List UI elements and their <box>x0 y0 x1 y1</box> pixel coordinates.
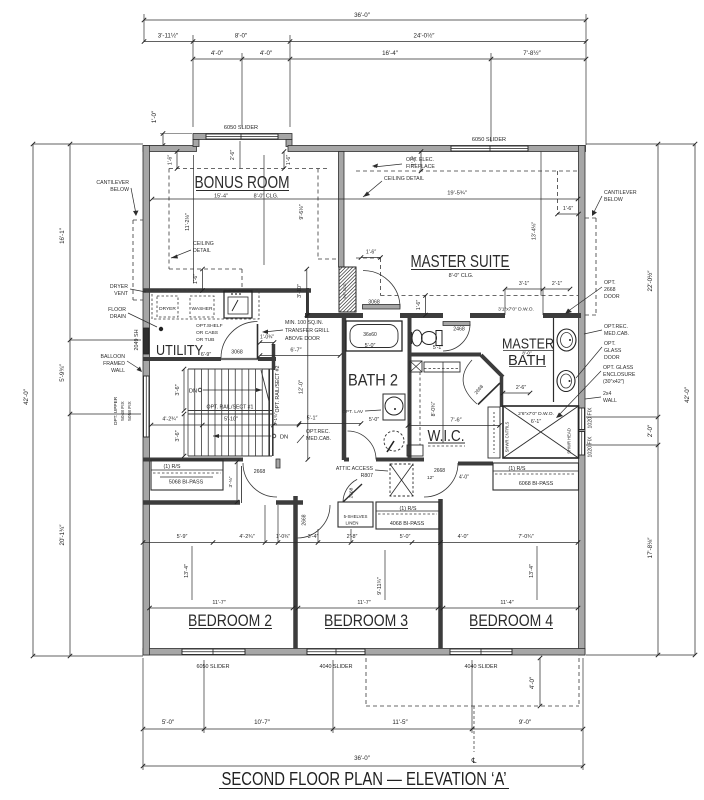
dimension 1'-6 bonus right <box>283 152 285 169</box>
utility cabinets dashed outline <box>152 290 259 319</box>
svg-text:3'1″x7'0″ D.W.O.: 3'1″x7'0″ D.W.O. <box>498 307 534 313</box>
svg-text:TRANSFER GRILL: TRANSFER GRILL <box>285 328 330 334</box>
svg-text:3068: 3068 <box>368 300 380 306</box>
extension lines left <box>33 143 143 145</box>
dimension 1'-6 at wall <box>425 296 427 316</box>
dimension 7'-6 WIC <box>408 425 500 427</box>
dimension 3'-6 upper flight <box>183 369 185 411</box>
svg-text:1'-6″: 1'-6″ <box>563 206 573 212</box>
svg-text:16'-4″: 16'-4″ <box>382 50 399 57</box>
svg-text:9'-11¾″: 9'-11¾″ <box>377 577 383 595</box>
washer dashed box <box>190 296 214 317</box>
svg-text:MED.CAB.: MED.CAB. <box>604 331 629 337</box>
svg-text:BEDROOM 3: BEDROOM 3 <box>324 612 408 630</box>
wall toilet room bottom <box>410 353 482 357</box>
door master suite 3068 <box>363 305 401 310</box>
dimension 1'-6 master top <box>420 152 422 172</box>
window 4040 slider bottom (bedroom 4) <box>450 649 512 655</box>
bathtub bath2 36x60 <box>346 321 402 351</box>
svg-text:3'-⅛″: 3'-⅛″ <box>228 476 234 487</box>
WIC bottom shelf <box>428 442 465 444</box>
svg-text:2'-6″: 2'-6″ <box>516 385 526 391</box>
svg-text:6050 SLIDER: 6050 SLIDER <box>224 125 258 131</box>
svg-text:4'-0″: 4'-0″ <box>458 534 469 540</box>
extension lines right <box>586 143 695 145</box>
svg-text:4040 SLIDER: 4040 SLIDER <box>320 664 353 670</box>
svg-text:ABOVE DOOR: ABOVE DOOR <box>285 336 320 342</box>
dimension bottom row (5'-0 / 10'-7 / 11'-5 / 9'-0) <box>143 728 583 730</box>
ceiling dashed master suite <box>356 170 578 172</box>
svg-text:CANTILEVER: CANTILEVER <box>604 190 637 196</box>
svg-text:5'-9″: 5'-9″ <box>177 534 188 540</box>
svg-text:5'-0″: 5'-0″ <box>162 719 175 726</box>
wall bath2 south west stub <box>344 458 349 462</box>
wall bath2 south east <box>376 458 424 462</box>
wall bonus/master divider <box>339 152 345 268</box>
extension lines top <box>143 14 145 42</box>
stairs DN arrow lower <box>213 435 271 437</box>
svg-text:BELOW: BELOW <box>604 197 623 203</box>
svg-text:2'6″x7'0″ D.W.O.: 2'6″x7'0″ D.W.O. <box>518 411 554 417</box>
toilet room toilet <box>422 332 437 345</box>
WIC corner shelf box <box>407 445 423 456</box>
WIC shelf edge line <box>442 362 444 443</box>
svg-text:CEILING DETAIL: CEILING DETAIL <box>384 176 424 182</box>
svg-text:BATH 2: BATH 2 <box>348 372 398 390</box>
svg-text:VENT: VENT <box>114 291 129 297</box>
svg-text:MED.CAB.: MED.CAB. <box>306 436 331 442</box>
svg-text:DN: DN <box>280 435 288 441</box>
closet bedroom4 (6068 bi-pass) <box>493 463 579 490</box>
bump right jog wall <box>286 140 292 147</box>
window 5048 FIX left wall <box>144 376 150 437</box>
closet bedroom3 (4068 bi-pass) <box>376 502 439 529</box>
svg-text:3'-6″: 3'-6″ <box>175 430 181 441</box>
svg-text:11'-2⅛″: 11'-2⅛″ <box>185 213 191 231</box>
svg-text:1'-6″: 1'-6″ <box>416 300 422 310</box>
svg-text:5-SHELVES: 5-SHELVES <box>344 514 368 519</box>
master bath sink 1 <box>557 329 576 351</box>
extension lines bottom <box>142 658 144 770</box>
dimension 12'-0 hall <box>307 316 309 460</box>
svg-text:SECOND FLOOR PLAN — ELEVAT: SECOND FLOOR PLAN — ELEVATION ‘A’ <box>222 769 507 789</box>
exterior wall top-left segment <box>143 146 197 152</box>
fireplace hatch lines <box>338 266 340 268</box>
svg-text:DRYER: DRYER <box>159 306 176 312</box>
svg-text:MIN. 100 SQ.IN.: MIN. 100 SQ.IN. <box>285 320 323 326</box>
exterior wall right <box>579 146 586 656</box>
dimension 36'-0" top row <box>144 19 586 21</box>
dimension 13'-4 master <box>540 152 542 296</box>
svg-text:ATTIC ACCESS: ATTIC ACCESS <box>336 466 374 472</box>
svg-text:5068 BI-PASS: 5068 BI-PASS <box>169 480 204 486</box>
svg-text:6'-1″: 6'-1″ <box>531 419 541 425</box>
svg-text:4'-2¾″: 4'-2¾″ <box>162 417 177 423</box>
svg-text:OPT. UPPER: OPT. UPPER <box>113 396 119 425</box>
svg-text:4'-0″: 4'-0″ <box>211 50 224 57</box>
svg-text:BEDROOM 4: BEDROOM 4 <box>469 612 553 630</box>
svg-text:DOOR: DOOR <box>604 294 620 300</box>
wall hall south (bedroom2 top) right <box>276 500 298 505</box>
wall WIC bottom east <box>458 462 493 466</box>
dimension 42'-0" right column <box>694 144 696 655</box>
svg-text:BALLOON: BALLOON <box>100 354 125 360</box>
svg-text:WASHER: WASHER <box>192 306 213 312</box>
svg-text:DN: DN <box>189 389 197 395</box>
svg-text:13'-4″: 13'-4″ <box>184 564 190 578</box>
svg-text:3'-11½″: 3'-11½″ <box>158 33 179 40</box>
svg-text:2468: 2468 <box>453 327 465 333</box>
svg-text:4040 SLIDER: 4040 SLIDER <box>465 664 498 670</box>
svg-text:42'-0″: 42'-0″ <box>684 386 691 403</box>
svg-text:7'-6″: 7'-6″ <box>450 418 461 424</box>
dimension 2'-6 bonus top <box>239 141 241 169</box>
svg-text:11'-7″: 11'-7″ <box>357 600 370 606</box>
dimension 1'-0" wall jog <box>162 134 164 146</box>
door vestibule 2668 <box>243 463 277 497</box>
svg-text:2x4: 2x4 <box>603 391 611 397</box>
dimension 11'-7 bedroom2 <box>150 607 294 609</box>
exterior wall bottom <box>143 649 585 656</box>
wall utility bottom left <box>143 357 221 361</box>
dimension 5'-1 hall <box>299 423 361 425</box>
svg-text:12″: 12″ <box>427 475 434 481</box>
dimension row bedrooms <box>143 542 578 544</box>
svg-text:CANTILEVER: CANTILEVER <box>96 180 129 186</box>
svg-text:W.I.C.: W.I.C. <box>428 428 465 445</box>
dimension 13'-4 bedroom2 <box>191 546 193 600</box>
svg-text:2'-1¾″: 2'-1¾″ <box>273 412 278 425</box>
cantilever dashed left <box>132 220 134 300</box>
dimension 4'-0" cantilever bottom <box>539 658 541 706</box>
svg-text:OPT.REC.: OPT.REC. <box>306 429 330 435</box>
svg-text:13'-4″: 13'-4″ <box>529 564 535 578</box>
svg-text:42'-0″: 42'-0″ <box>23 388 30 405</box>
svg-text:FIREPLACE: FIREPLACE <box>406 164 435 170</box>
closet bedroom2 (5068 bi-pass) <box>151 460 223 490</box>
svg-text:4068 BI-PASS: 4068 BI-PASS <box>390 521 425 527</box>
svg-text:3'-6″: 3'-6″ <box>175 384 181 395</box>
svg-text:OPT. RAIL/SECT #1: OPT. RAIL/SECT #1 <box>207 405 254 411</box>
WIC corner hatch <box>410 361 422 372</box>
svg-text:36'-0″: 36'-0″ <box>354 755 371 762</box>
svg-text:22'-0½″: 22'-0½″ <box>647 270 654 292</box>
master bath vanity counter <box>553 318 555 402</box>
svg-text:DETAIL: DETAIL <box>193 248 211 254</box>
dimension 11'-2 bonus <box>193 155 195 283</box>
wall utility top <box>143 288 311 293</box>
svg-text:5'-1″: 5'-1″ <box>433 345 443 351</box>
svg-text:OPT.SHELF: OPT.SHELF <box>196 323 223 329</box>
svg-text:SHWR CNTRLS: SHWR CNTRLS <box>505 421 510 452</box>
dimension 36'-0" bottom <box>143 765 583 767</box>
svg-text:3'-4″: 3'-4″ <box>308 534 319 540</box>
wall master suite bottom seg1 <box>305 313 363 318</box>
window 6050 slider top (master suite) <box>451 146 528 151</box>
svg-text:5'-0″: 5'-0″ <box>365 343 376 349</box>
svg-text:11'-4″: 11'-4″ <box>500 600 513 606</box>
svg-text:BONUS ROOM: BONUS ROOM <box>195 172 290 192</box>
window 1020 FIX right lower <box>579 432 585 456</box>
dimension right col (22'-0 / 2'-0 / 17'-8) <box>657 144 659 655</box>
wall chamfer master bath entry <box>481 355 503 377</box>
dimension 1'-0 hall <box>260 342 274 344</box>
svg-text:24'-0½″: 24'-0½″ <box>414 33 436 40</box>
svg-text:LINEN: LINEN <box>346 521 359 526</box>
cantilever dashed right <box>595 218 597 315</box>
svg-text:7'-8½″: 7'-8½″ <box>523 50 541 57</box>
wall master suite bottom seg2 <box>400 313 443 318</box>
svg-text:6050 SLIDER: 6050 SLIDER <box>197 664 230 670</box>
svg-text:MASTER SUITE: MASTER SUITE <box>411 251 510 271</box>
svg-text:UTILITY: UTILITY <box>156 342 203 359</box>
svg-text:8'-0¾″: 8'-0¾″ <box>431 402 437 417</box>
dimension 1'-6 master door <box>361 257 381 259</box>
svg-text:16'-1″: 16'-1″ <box>59 227 66 244</box>
WIC rod dashed <box>419 372 421 445</box>
extension lines bedroom dim row <box>264 505 266 542</box>
exterior wall left <box>143 146 150 656</box>
svg-text:1'-6″: 1'-6″ <box>366 250 376 256</box>
bath2 vanity <box>383 394 405 420</box>
svg-text:6'-7″: 6'-7″ <box>290 348 301 354</box>
svg-text:OPT. GLASS: OPT. GLASS <box>603 365 634 371</box>
svg-text:OPT. RAIL/SECT #2: OPT. RAIL/SECT #2 <box>275 365 281 412</box>
bath2 toilet optional (dashed circle) <box>384 431 404 451</box>
dimension row 2 top (3'-11 / 8'-0 / 24'-0) <box>144 41 586 43</box>
dimension 19'-5 master suite <box>152 198 578 200</box>
svg-text:2'-0″: 2'-0″ <box>647 424 654 437</box>
svg-text:1'-0″: 1'-0″ <box>151 110 158 123</box>
svg-text:2668: 2668 <box>604 287 616 293</box>
window 1020 FIX right upper <box>579 408 585 430</box>
closet dashes bedroom2 vestibule <box>241 466 243 503</box>
dimension 2'-6 WC <box>503 392 530 394</box>
svg-text:6'-9″: 6'-9″ <box>201 352 211 358</box>
svg-text:(1) R/S: (1) R/S <box>163 464 180 470</box>
svg-text:2668: 2668 <box>302 514 308 525</box>
svg-text:2668: 2668 <box>254 469 266 475</box>
stairs DN arrow upper <box>203 389 262 391</box>
svg-text:1020 FIX: 1020 FIX <box>588 407 594 429</box>
laundry tub <box>224 291 252 318</box>
svg-text:SHWR HEAD: SHWR HEAD <box>567 428 572 454</box>
window 4040 slider bottom (bedroom 3) <box>307 649 365 655</box>
svg-text:9'6″ CLG: 9'6″ CLG <box>343 283 347 298</box>
dimension 9'-11 bedroom3 <box>384 550 386 600</box>
dimension row stairs (4'-2 / 5'-10 / 2'-1) <box>151 424 299 426</box>
svg-text:OR CABS: OR CABS <box>196 330 219 336</box>
svg-text:WALL: WALL <box>603 398 617 404</box>
svg-text:DOOR: DOOR <box>604 355 620 361</box>
svg-text:4'-0″: 4'-0″ <box>260 50 273 57</box>
svg-text:BEDROOM 2: BEDROOM 2 <box>188 612 272 630</box>
svg-text:4'-0″: 4'-0″ <box>529 676 536 689</box>
exterior wall top-right segment <box>288 146 586 152</box>
wall hall south (bedroom2 top) left <box>143 500 240 505</box>
svg-text:5'-9¾″: 5'-9¾″ <box>59 363 66 381</box>
door bath2 2668 <box>348 431 377 460</box>
svg-text:OR TUB: OR TUB <box>196 337 214 343</box>
stairs <box>187 369 189 456</box>
master bath sink 2 <box>557 371 575 392</box>
svg-text:8'-0″ CLG.: 8'-0″ CLG. <box>254 194 279 200</box>
svg-text:2049 SH: 2049 SH <box>134 329 140 350</box>
dimension 3'-0 vestibule <box>236 462 238 502</box>
svg-text:8'-0″: 8'-0″ <box>235 33 248 40</box>
svg-text:DRYER: DRYER <box>110 284 128 290</box>
svg-text:OPT.REC.: OPT.REC. <box>604 324 628 330</box>
svg-text:2'-6″: 2'-6″ <box>230 150 236 160</box>
svg-text:5'-0″: 5'-0″ <box>400 534 411 540</box>
door bedroom3 2668 <box>298 505 331 538</box>
svg-text:6068 BI-PASS: 6068 BI-PASS <box>519 481 554 487</box>
svg-text:1'-6″: 1'-6″ <box>286 155 292 165</box>
fireplace chase hatched <box>339 267 356 312</box>
svg-text:4'-0″: 4'-0″ <box>459 475 469 481</box>
svg-text:10'-7″: 10'-7″ <box>254 719 271 726</box>
dimension 1'-6 utility <box>202 269 204 291</box>
window 6050 slider top (bonus room) <box>206 134 278 139</box>
dimension 13'-4 bedroom4 <box>536 546 538 600</box>
exterior wall bonus-room bump <box>193 134 292 140</box>
svg-text:5058 FIX: 5058 FIX <box>127 400 133 420</box>
window 6050 slider bottom (bedroom 2) <box>182 649 245 655</box>
door master bath 2668 <box>478 383 500 405</box>
svg-text:11'-5″: 11'-5″ <box>392 719 408 726</box>
dimension 3'-10 hall <box>306 269 308 315</box>
svg-text:36'-0″: 36'-0″ <box>354 12 371 19</box>
master shower <box>503 406 579 458</box>
svg-text:R807: R807 <box>361 473 374 479</box>
svg-text:3'-10″: 3'-10″ <box>297 284 303 298</box>
svg-text:7'-0¾″: 7'-0¾″ <box>518 534 533 540</box>
svg-text:ENCLOSURE: ENCLOSURE <box>603 372 636 378</box>
dimension left col 2 (16'-1 / 5'-9 / 20'-1) <box>69 144 71 656</box>
wall utility/hall vertical <box>306 288 309 315</box>
wall bedroom2/3 divider <box>293 496 298 649</box>
svg-text:3068: 3068 <box>231 350 243 356</box>
svg-text:5048 FIX: 5048 FIX <box>120 400 126 420</box>
svg-text:5'-10″: 5'-10″ <box>224 417 238 423</box>
svg-text:19'-5¾″: 19'-5¾″ <box>447 191 467 197</box>
shower controls chase <box>488 407 500 458</box>
svg-text:20'-1¾″: 20'-1¾″ <box>59 524 66 546</box>
dimension 6'-7 hall <box>260 355 340 357</box>
svg-text:1020 FIX: 1020 FIX <box>588 436 594 458</box>
svg-text:2'-1″: 2'-1″ <box>552 281 562 287</box>
svg-text:(1) R/S: (1) R/S <box>399 506 416 512</box>
svg-text:13'-4⅛″: 13'-4⅛″ <box>532 222 538 240</box>
attic access hatch <box>390 464 413 496</box>
WIC top shelf <box>424 362 460 372</box>
svg-text:8'-0″: 8'-0″ <box>522 351 532 356</box>
door linen <box>343 484 362 502</box>
window 2049 SH left wall <box>144 328 150 354</box>
svg-text:FLOOR: FLOOR <box>108 307 126 313</box>
svg-text:4'-2¾″: 4'-2¾″ <box>239 534 254 540</box>
svg-text:OPT. ELEC.: OPT. ELEC. <box>406 157 434 163</box>
closet linen 5-shelves <box>338 502 373 527</box>
svg-text:BELOW: BELOW <box>110 187 129 193</box>
wall stairs bottom / bedroom2 closet top <box>143 458 243 462</box>
dimension 3'-1 / 2'-1 dwo <box>505 288 570 290</box>
cantilever dashed bottom <box>366 705 579 707</box>
svg-text:1'-6″: 1'-6″ <box>168 155 174 165</box>
bump left jog wall <box>193 140 199 147</box>
svg-text:9'-0″: 9'-0″ <box>519 719 532 726</box>
svg-text:CEILING: CEILING <box>193 241 214 247</box>
dimension 1'-6 bonus left <box>176 152 178 169</box>
door toilet 2468 <box>443 322 470 326</box>
wall master suite bottom seg4 <box>543 313 581 318</box>
svg-text:(30″x42″): (30″x42″) <box>603 379 625 385</box>
svg-text:11'-7″: 11'-7″ <box>212 600 225 606</box>
dimension 11'-4 bedroom4 <box>443 607 578 609</box>
svg-text:OPT.: OPT. <box>604 341 616 347</box>
svg-text:12'-0″: 12'-0″ <box>299 380 305 394</box>
svg-text:OPT. LAV: OPT. LAV <box>342 409 364 415</box>
svg-text:5'-1″: 5'-1″ <box>307 416 318 422</box>
svg-text:36x60: 36x60 <box>363 332 377 338</box>
svg-text:GLASS: GLASS <box>604 348 622 354</box>
toilet room sink <box>412 330 422 346</box>
wall bedroom3/4 divider <box>438 499 443 649</box>
ceiling dashed bonus room <box>169 168 330 170</box>
wall hall west of bath <box>272 344 276 370</box>
dimension row 3 top (4'-0 / 4'-0 / 16'-4 / 7'-8) <box>193 58 586 60</box>
door WIC hall 2668 <box>424 463 458 497</box>
utility door threshold <box>221 358 258 360</box>
dimension 11'-7 bedroom3 <box>298 607 438 609</box>
svg-text:3'-1″: 3'-1″ <box>519 281 529 287</box>
svg-text:OPT.: OPT. <box>604 280 616 286</box>
door utility 3068 <box>257 324 259 359</box>
svg-text:9'-6⅛″: 9'-6⅛″ <box>299 204 305 219</box>
svg-text:1'-0¾″: 1'-0¾″ <box>260 335 274 341</box>
svg-text:1'-6″: 1'-6″ <box>193 274 199 284</box>
svg-text:FRAMED: FRAMED <box>103 361 125 367</box>
wall utility bottom right stub <box>258 357 276 361</box>
svg-text:WALL: WALL <box>111 368 125 374</box>
svg-text:2'-8″: 2'-8″ <box>347 534 358 540</box>
svg-text:17'-8⅛″: 17'-8⅛″ <box>647 537 654 559</box>
svg-text:(1) R/S: (1) R/S <box>508 466 525 472</box>
svg-text:2668: 2668 <box>434 468 445 474</box>
svg-text:DRAIN: DRAIN <box>110 314 126 320</box>
svg-text:8'-0″ CLG.: 8'-0″ CLG. <box>449 273 474 279</box>
svg-text:5'-0″: 5'-0″ <box>369 417 379 423</box>
svg-text:6050 SLIDER: 6050 SLIDER <box>472 137 506 143</box>
wall shower west upper <box>500 377 504 407</box>
wall bedroom3 top (linen/closet row) <box>298 500 303 505</box>
wall bath2/toilet divider <box>408 316 412 459</box>
dimension 42'-0" left column <box>32 144 34 656</box>
dimension 3'-6 lower flight <box>183 414 185 456</box>
dryer dashed box <box>157 296 178 317</box>
wall bath2 west <box>342 316 347 461</box>
svg-text:15'-4″: 15'-4″ <box>214 194 228 200</box>
dimension 1'-6 master right <box>558 213 579 215</box>
wall stub at vestibule <box>276 459 280 468</box>
wall master suite bottom seg3 <box>470 313 505 318</box>
